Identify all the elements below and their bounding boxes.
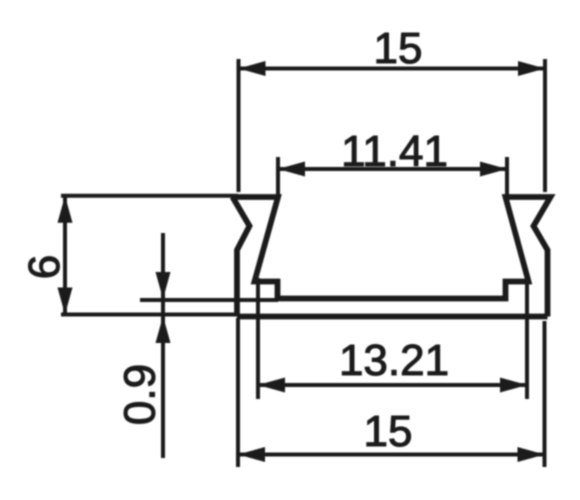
wire 6 dim line <box>63 196 67 315</box>
svg-text:6: 6 <box>20 255 69 279</box>
arrowhead 6 top <box>58 196 73 223</box>
wire 0.9 ext top <box>140 298 278 302</box>
wire 13.21 ext left <box>256 278 260 399</box>
arrowhead 0.9 up <box>156 316 171 343</box>
wire 0.9 leader line <box>161 233 165 458</box>
svg-text:11.41: 11.41 <box>341 127 448 176</box>
svg-text:15: 15 <box>364 407 413 456</box>
arrowhead top15 right <box>518 61 545 76</box>
wire bottom 15 dim line <box>238 453 545 457</box>
arrowhead bottom15 left <box>238 447 265 462</box>
wire top 15 dim line <box>239 67 546 71</box>
svg-text:0.9: 0.9 <box>116 364 165 425</box>
wire 6 ext bottom <box>61 313 237 317</box>
arrowhead bottom15 right <box>518 447 545 462</box>
wire 13.21 ext right <box>525 278 529 399</box>
wire top 15 ext right <box>543 59 547 192</box>
wire 11.41 ext left <box>276 157 280 195</box>
arrowhead 11.41 right <box>480 162 507 177</box>
wire 6 ext top <box>61 194 238 198</box>
profile outline <box>233 197 551 317</box>
svg-text:15: 15 <box>374 24 423 73</box>
svg-text:13.21: 13.21 <box>339 336 449 385</box>
wire bottom 15 ext right <box>543 321 547 467</box>
arrowhead 13.21 left <box>258 378 285 393</box>
arrowhead 6 bottom <box>58 288 73 315</box>
wire 13.21 dim line <box>258 383 527 387</box>
arrowhead 0.9 down <box>156 272 171 299</box>
wire 11.41 ext right <box>505 157 509 195</box>
wire 11.41 dim line <box>278 167 507 171</box>
wire top 15 ext left <box>237 59 241 192</box>
arrowhead top15 left <box>239 61 266 76</box>
wire bottom 15 ext left <box>236 318 240 467</box>
arrowhead 11.41 left <box>278 162 305 177</box>
arrowhead 13.21 right <box>500 378 527 393</box>
